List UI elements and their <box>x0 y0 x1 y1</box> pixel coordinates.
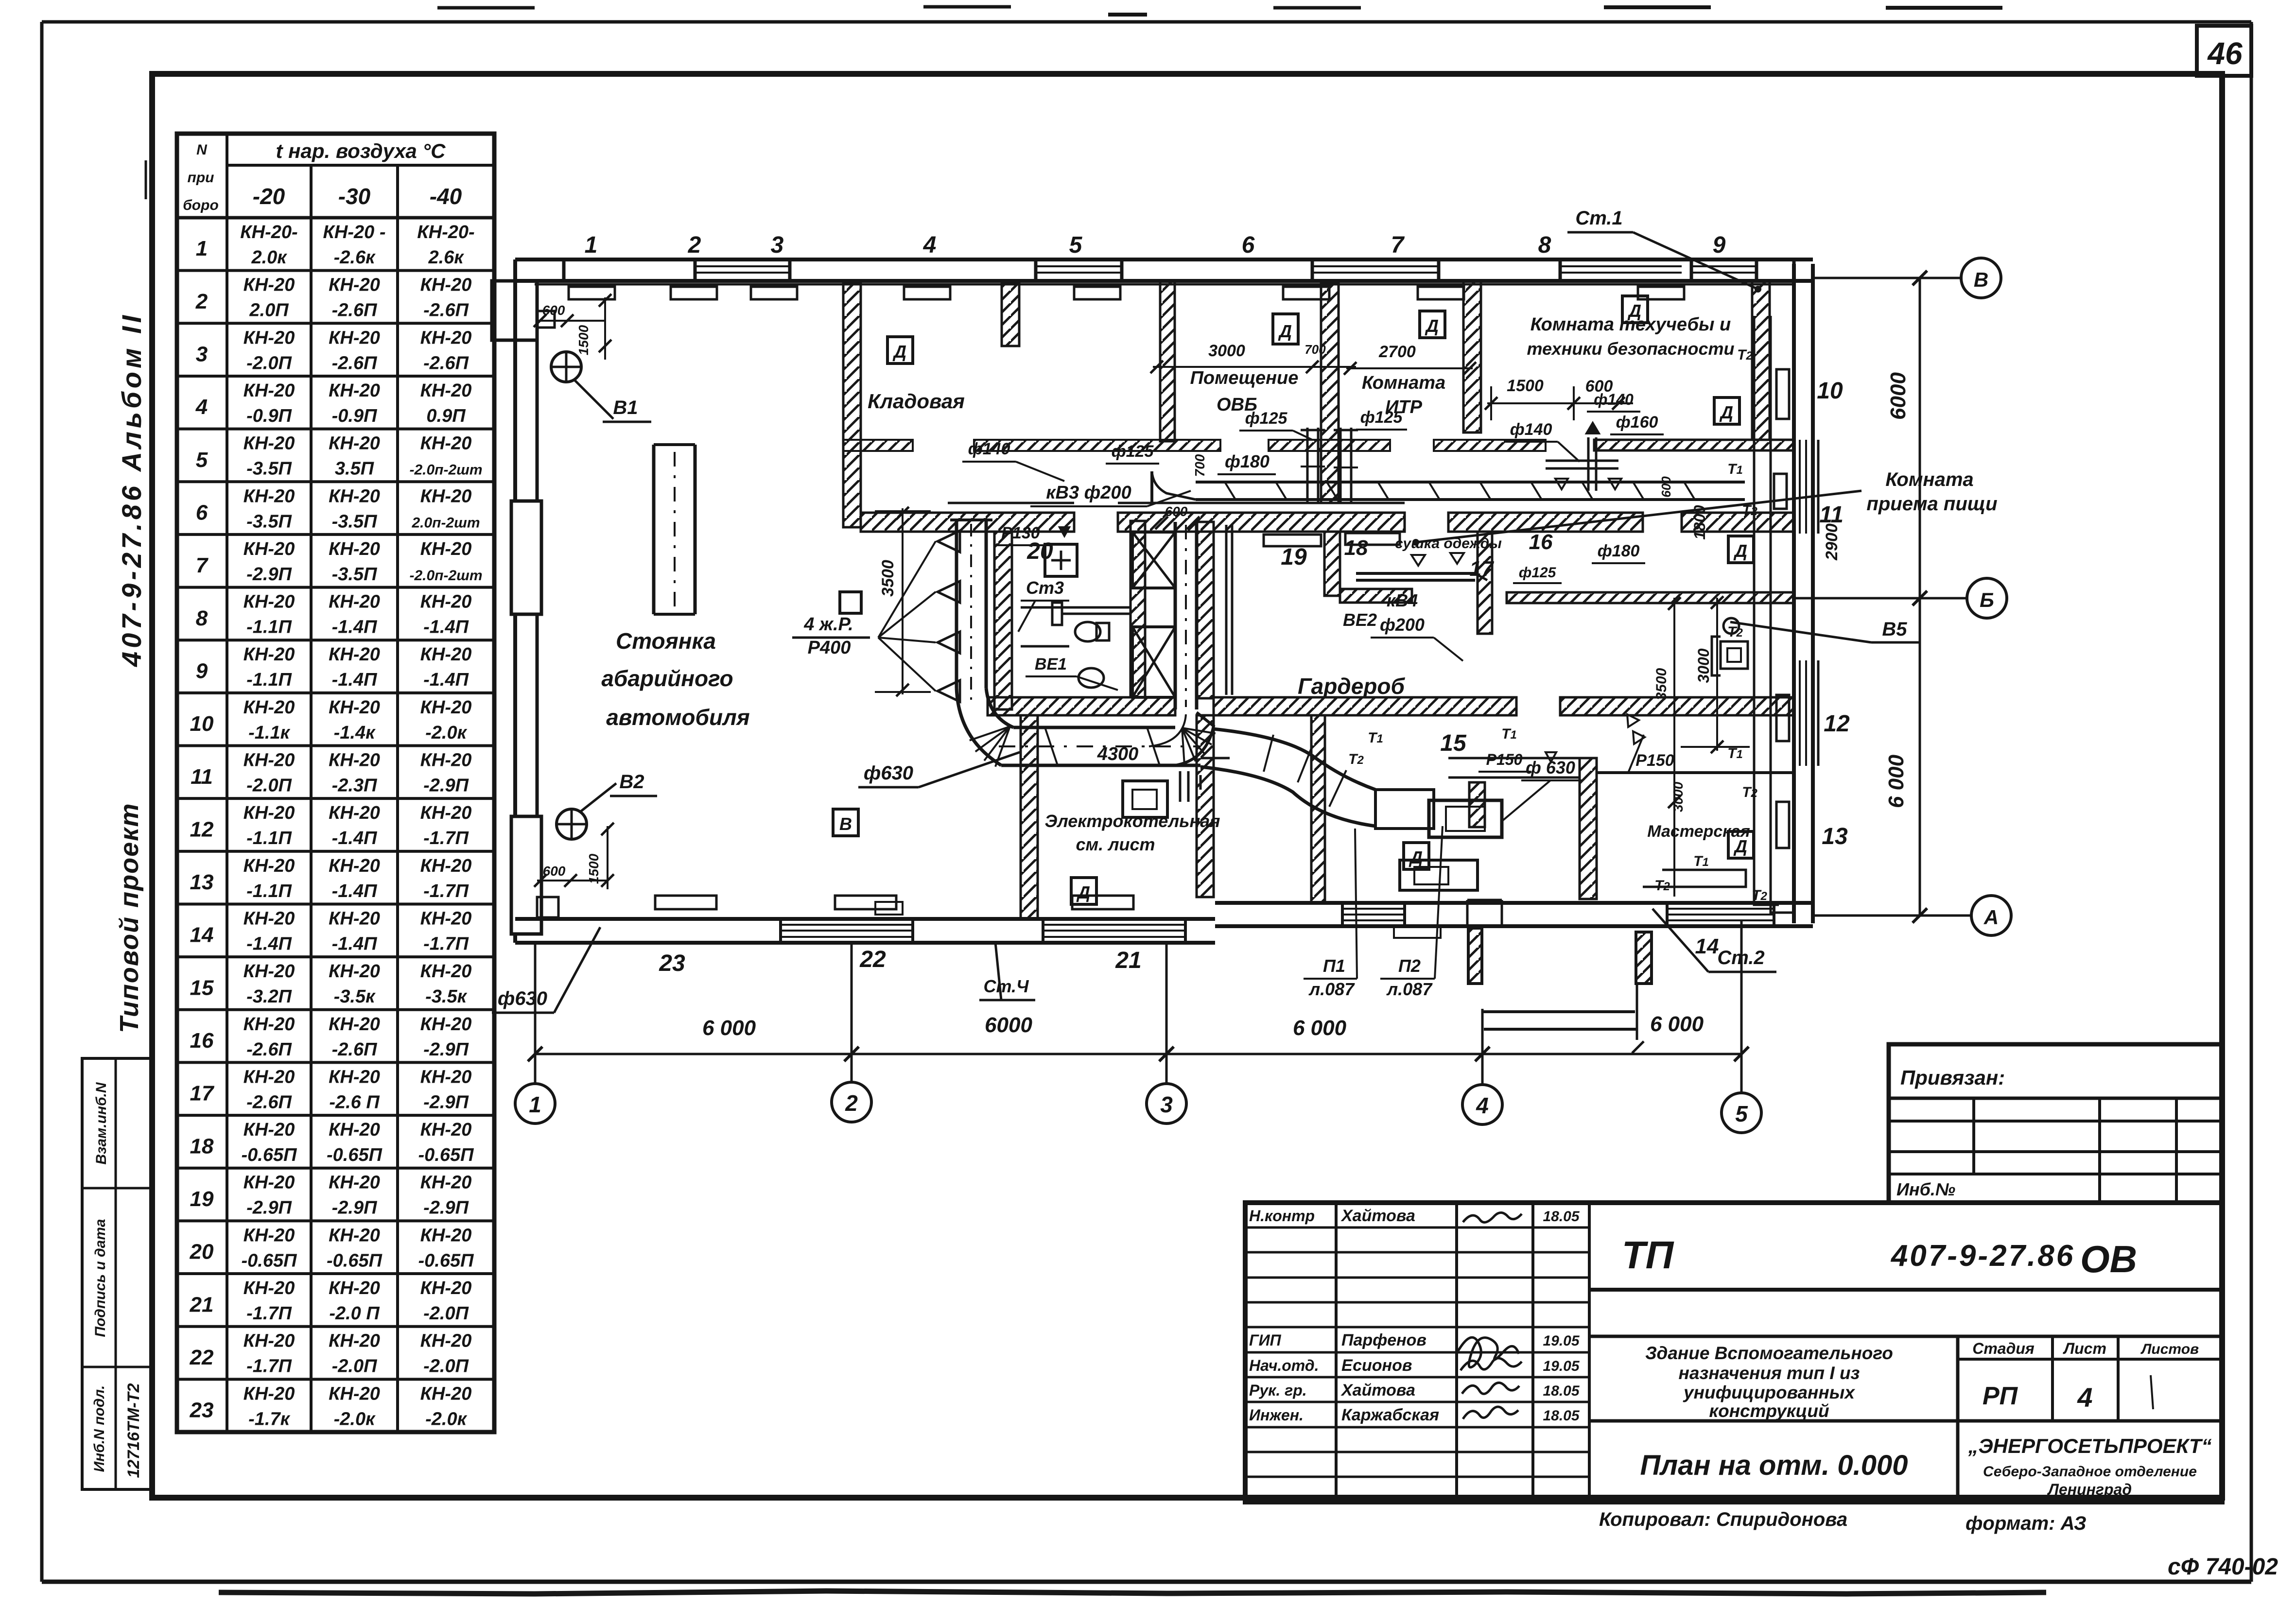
svg-text:11: 11 <box>191 765 213 789</box>
svg-text:КН-20: КН-20 <box>244 486 295 506</box>
svg-text:-2.0п-2шт: -2.0п-2шт <box>409 568 482 584</box>
svg-text:600: 600 <box>542 303 565 318</box>
svg-text:-0.65П: -0.65П <box>242 1145 297 1165</box>
svg-text:КН-20: КН-20 <box>420 1383 472 1404</box>
instrument/temperature data table <box>177 134 494 1432</box>
svg-text:-3.2П: -3.2П <box>246 986 292 1007</box>
svg-text:17: 17 <box>1470 557 1495 581</box>
duct label VE1 <box>1026 655 1118 690</box>
svg-text:2900: 2900 <box>1823 523 1841 561</box>
boxed letter D (tech room) <box>1622 296 1648 323</box>
dim 3500 rotated <box>1653 668 1670 700</box>
dim 3000 top <box>1150 342 1356 373</box>
svg-text:-0.65П: -0.65П <box>327 1250 383 1271</box>
svg-text:КН-20: КН-20 <box>420 1331 472 1351</box>
monorail column at stoyanka <box>654 445 695 614</box>
svg-text:-1.4П: -1.4П <box>332 617 377 638</box>
svg-text:13: 13 <box>190 870 214 894</box>
dim 600 near B2 <box>534 864 608 887</box>
svg-text:Т2: Т2 <box>1742 784 1757 800</box>
svg-text:-2.6П: -2.6П <box>423 300 469 321</box>
svg-text:-2.0П: -2.0П <box>246 776 292 796</box>
svg-text:3: 3 <box>196 343 208 366</box>
riser pipes f125 pair A <box>1301 428 1325 503</box>
svg-text:-3.5П: -3.5П <box>246 511 292 532</box>
svg-text:Помещение: Помещение <box>1190 368 1299 388</box>
svg-text:унифицированных: унифицированных <box>1683 1382 1855 1402</box>
svg-text:-1.4П: -1.4П <box>332 933 377 954</box>
svg-text:600: 600 <box>1165 504 1188 519</box>
svg-text:КН-20: КН-20 <box>329 433 380 454</box>
svg-text:ф125: ф125 <box>1360 408 1403 427</box>
svg-text:-0.9П: -0.9П <box>246 406 292 426</box>
svg-text:Комната: Комната <box>1885 469 1973 490</box>
floor drain square <box>840 592 861 613</box>
boxed letter D (room 11) <box>1728 536 1754 563</box>
position labels 15-20 <box>1026 530 1553 756</box>
svg-text:-2.0П: -2.0П <box>423 1303 469 1324</box>
svg-text:КН-20: КН-20 <box>329 856 380 876</box>
svg-text:-2.6 П: -2.6 П <box>329 1092 380 1112</box>
svg-text:0.9П: 0.9П <box>426 406 466 426</box>
duct label f180 right <box>1592 542 1645 563</box>
svg-text:-1.7П: -1.7П <box>423 881 469 901</box>
svg-text:22: 22 <box>190 1346 214 1369</box>
title block frame <box>1245 1203 2222 1502</box>
svg-text:КН-20: КН-20 <box>329 803 380 823</box>
svg-text:-2.6П: -2.6П <box>246 1039 292 1060</box>
axis B circle and leader <box>1794 578 2007 618</box>
svg-text:КН-20: КН-20 <box>244 1120 295 1140</box>
svg-text:2.0П: 2.0П <box>249 300 289 321</box>
svg-text:-1.7П: -1.7П <box>423 933 469 954</box>
svg-text:КН-20: КН-20 <box>329 1067 380 1087</box>
room label: Komnata ITR <box>1362 373 1445 417</box>
dims 1500 600 tech room <box>1485 377 1633 420</box>
dim 600 at duct <box>1155 504 1200 529</box>
svg-text:-2.9П: -2.9П <box>423 776 469 796</box>
partition room18/17 <box>1478 532 1492 634</box>
svg-text:1: 1 <box>585 232 598 258</box>
axis 4 circle <box>1462 1009 1502 1124</box>
svg-text:КН-20: КН-20 <box>244 697 295 718</box>
svg-text:1500: 1500 <box>586 853 601 884</box>
svg-text:КН-20: КН-20 <box>420 486 472 506</box>
svg-text:В: В <box>1974 268 1988 291</box>
svg-text:Себеро-Западное отделение: Себеро-Западное отделение <box>1983 1464 2197 1480</box>
svg-text:6: 6 <box>1242 232 1255 258</box>
boxed letter D (room 10) <box>1714 397 1739 424</box>
svg-text:Н.контр: Н.контр <box>1249 1207 1315 1225</box>
svg-text:Р400: Р400 <box>808 638 851 658</box>
svg-text:КН-20: КН-20 <box>420 380 472 401</box>
svg-text:см. лист: см. лист <box>1076 834 1155 854</box>
svg-text:3000: 3000 <box>1208 342 1245 360</box>
svg-text:при: при <box>188 170 214 186</box>
boxed letter D (OVB1) <box>1273 314 1298 344</box>
svg-text:Взам.инб.N: Взам.инб.N <box>93 1082 109 1165</box>
label T1 f630 right <box>1501 726 1582 821</box>
boxed letter D (room 13) <box>1728 831 1754 858</box>
room label: Pomeshchenie OVB 1 <box>1190 368 1299 415</box>
svg-text:ТП: ТП <box>1622 1233 1674 1277</box>
svg-text:КН-20-: КН-20- <box>240 222 297 242</box>
archive mark <box>2168 1554 2278 1580</box>
svg-text:4300: 4300 <box>1097 744 1139 764</box>
svg-text:Нач.отд.: Нач.отд. <box>1249 1357 1319 1374</box>
duct label VE2 f200 <box>1343 610 1377 630</box>
svg-text:4: 4 <box>195 395 208 419</box>
svg-text:2700: 2700 <box>1378 343 1416 361</box>
ventilation unit P2 <box>1400 860 1478 890</box>
svg-text:КН-20: КН-20 <box>244 1383 295 1404</box>
svg-text:В5: В5 <box>1882 619 1907 640</box>
svg-text:5: 5 <box>196 448 208 472</box>
stage/sheet header <box>1958 1336 2222 1502</box>
svg-text:Типовой проект: Типовой проект <box>115 802 144 1033</box>
svg-text:-2.9П: -2.9П <box>246 564 292 585</box>
svg-text:2.0п-2шт: 2.0п-2шт <box>411 515 480 531</box>
svg-text:1800: 1800 <box>1691 505 1708 539</box>
partition wall OVB2/ITR <box>1463 281 1481 432</box>
svg-text:Д: Д <box>1425 316 1439 336</box>
svg-text:600: 600 <box>1585 377 1613 396</box>
axis 1 circle <box>515 943 555 1123</box>
svg-text:-1.1П: -1.1П <box>246 828 292 848</box>
svg-text:конструкций: конструкций <box>1709 1401 1829 1421</box>
svg-text:18.05: 18.05 <box>1543 1383 1580 1399</box>
svg-text:Стоянка: Стоянка <box>616 628 716 654</box>
svg-text:2: 2 <box>688 232 701 258</box>
svg-text:Хайтова: Хайтова <box>1340 1207 1415 1225</box>
svg-text:В2: В2 <box>619 771 644 793</box>
riser pipes T1 T2 along right wall <box>1754 316 1794 913</box>
axis 5 circle <box>1722 921 1761 1133</box>
radiators in rooms 19 18 <box>1264 533 1400 546</box>
main duct d630 horizontal <box>999 727 1200 765</box>
title block sheet name <box>1589 1421 2222 1481</box>
svg-text:19.05: 19.05 <box>1543 1358 1580 1374</box>
svg-text:-1.7к: -1.7к <box>248 1409 290 1429</box>
scan top edge dashes <box>437 7 2002 15</box>
stack label St1 <box>1567 207 1761 293</box>
svg-text:12: 12 <box>190 817 214 841</box>
svg-text:-1.4П: -1.4П <box>332 828 377 848</box>
room label: dining room (outside, with leader) <box>1412 469 1998 546</box>
bottom torn paper edge <box>219 1591 2046 1594</box>
svg-text:КН-20: КН-20 <box>329 1278 380 1298</box>
svg-text:Каржабская: Каржабская <box>1341 1406 1439 1424</box>
S-duct and silencer bottom centre <box>1200 729 1502 837</box>
dim 4300 under duct <box>1097 744 1139 764</box>
svg-text:7: 7 <box>196 553 209 577</box>
svg-text:ГИП: ГИП <box>1249 1331 1282 1349</box>
svg-text:3: 3 <box>771 232 784 258</box>
room label: Kladovaya <box>868 390 965 413</box>
duct label f180 <box>1218 451 1276 474</box>
duct label f160 <box>1610 413 1664 434</box>
svg-text:ф140: ф140 <box>968 440 1010 458</box>
duct label f140 top <box>962 440 1064 481</box>
svg-text:КН-20: КН-20 <box>244 380 295 401</box>
svg-text:6: 6 <box>196 501 208 524</box>
svg-text:КН-20: КН-20 <box>329 1014 380 1035</box>
svg-text:Хайтова: Хайтова <box>1340 1381 1415 1400</box>
svg-text:6 000: 6 000 <box>702 1016 756 1040</box>
svg-text:Ленинград: Ленинград <box>2047 1481 2132 1498</box>
svg-text:КН-20: КН-20 <box>420 1173 472 1193</box>
axis position labels 1-9 along top <box>585 232 1726 258</box>
dim 600 at entrance <box>542 303 565 318</box>
vent mark B1 <box>551 352 651 422</box>
storage X-brace 1 <box>1132 532 1175 588</box>
svg-text:2.0к: 2.0к <box>251 247 287 268</box>
wall radiator strips right side <box>1774 369 1789 848</box>
svg-text:-2.6П: -2.6П <box>332 300 377 321</box>
svg-text:-1.1П: -1.1П <box>246 881 292 901</box>
corridor top wall <box>861 503 1794 532</box>
svg-text:15: 15 <box>190 976 214 1000</box>
rotated document number 407-9-27.86 Album II <box>116 160 147 667</box>
svg-text:14: 14 <box>1695 934 1719 958</box>
duct label f125 a <box>1106 442 1159 464</box>
svg-text:700: 700 <box>1305 342 1326 357</box>
svg-text:КН-20: КН-20 <box>329 539 380 559</box>
svg-text:-3.5П: -3.5П <box>246 459 292 479</box>
dim 700 small <box>1305 342 1326 357</box>
svg-text:3500: 3500 <box>1653 668 1670 700</box>
svg-text:7: 7 <box>1391 232 1405 258</box>
wall between room 10 and dining room <box>1594 440 1794 450</box>
svg-text:10: 10 <box>190 712 214 736</box>
svg-text:формат: АЗ: формат: АЗ <box>1966 1513 2087 1534</box>
svg-text:КН-20: КН-20 <box>244 1014 295 1035</box>
svg-text:КН-20: КН-20 <box>329 644 380 665</box>
svg-text:-2.9П: -2.9П <box>423 1198 469 1218</box>
svg-text:8: 8 <box>196 606 208 630</box>
svg-text:Т1: Т1 <box>1727 461 1743 477</box>
stack label St2 <box>1652 909 1776 972</box>
svg-text:Есионов: Есионов <box>1341 1356 1412 1375</box>
svg-text:13: 13 <box>1822 824 1848 849</box>
svg-text:КН-20: КН-20 <box>420 1067 472 1087</box>
svg-text:-3.5к: -3.5к <box>334 986 376 1007</box>
svg-text:-2.9П: -2.9П <box>246 1198 292 1218</box>
svg-text:КН-20-: КН-20- <box>417 222 474 242</box>
svg-text:19.05: 19.05 <box>1543 1333 1580 1349</box>
storage X-brace 2 <box>1132 627 1175 697</box>
svg-text:Д: Д <box>1409 847 1423 867</box>
svg-text:Т1: Т1 <box>1501 726 1517 742</box>
svg-text:Д: Д <box>1627 301 1641 321</box>
svg-text:Листов: Листов <box>2140 1341 2199 1357</box>
svg-text:Т1: Т1 <box>1368 730 1383 746</box>
svg-text:-20: -20 <box>253 184 285 209</box>
room label: tech study room <box>1527 314 1734 359</box>
svg-text:РП: РП <box>1983 1382 2018 1410</box>
svg-text:19: 19 <box>1281 544 1307 570</box>
svg-text:6 000: 6 000 <box>1293 1016 1347 1040</box>
svg-text:10: 10 <box>1817 378 1843 404</box>
svg-text:8: 8 <box>1538 232 1551 258</box>
svg-text:2: 2 <box>195 290 208 313</box>
grille triangles 4 zh.r. <box>938 531 960 702</box>
svg-text:15: 15 <box>1440 730 1467 756</box>
svg-text:4: 4 <box>1476 1093 1489 1118</box>
svg-text:КН-20: КН-20 <box>420 908 472 929</box>
duct label f125 right <box>1513 565 1562 583</box>
svg-text:КН-20: КН-20 <box>420 644 472 665</box>
workshop walls <box>1580 758 1794 899</box>
svg-text:КН-20: КН-20 <box>244 539 295 559</box>
svg-text:КН-20: КН-20 <box>329 486 380 506</box>
svg-text:18: 18 <box>190 1134 214 1158</box>
svg-text:Т2: Т2 <box>1348 751 1364 767</box>
boxed letter D (ITR) <box>1420 311 1445 338</box>
svg-text:700: 700 <box>1192 454 1207 477</box>
svg-text:Комната: Комната <box>1362 373 1445 393</box>
svg-text:кВ4: кВ4 <box>1387 590 1418 610</box>
svg-text:-2.9П: -2.9П <box>332 1198 377 1218</box>
svg-text:Р130: Р130 <box>1001 524 1040 542</box>
svg-text:КН-20: КН-20 <box>244 592 295 612</box>
top-left entrance step <box>492 281 605 340</box>
svg-text:17: 17 <box>190 1082 215 1106</box>
svg-text:КН-20: КН-20 <box>420 750 472 771</box>
svg-text:21: 21 <box>190 1293 214 1316</box>
svg-text:ВЕ2: ВЕ2 <box>1343 610 1377 630</box>
svg-text:Д: Д <box>1719 402 1733 422</box>
drying rod in drying room <box>1356 573 1487 580</box>
svg-text:КН-20: КН-20 <box>244 275 295 295</box>
svg-text:КН-20: КН-20 <box>244 961 295 982</box>
svg-text:-3.5П: -3.5П <box>332 564 377 585</box>
svg-text:КН-20: КН-20 <box>329 961 380 982</box>
signature squiggles <box>1458 1212 1522 1419</box>
svg-text:Ст3: Ст3 <box>1026 578 1064 598</box>
svg-text:Д: Д <box>892 342 906 362</box>
svg-text:2: 2 <box>845 1090 858 1116</box>
corridor upper wall <box>843 440 1546 451</box>
svg-text:КН-20: КН-20 <box>244 1173 295 1193</box>
svg-text:КН-20: КН-20 <box>329 908 380 929</box>
axis 2 circle <box>832 943 871 1122</box>
dim 3500 line <box>1668 597 1681 897</box>
supply shaft duct A2 <box>950 520 992 700</box>
svg-text:приема пищи: приема пищи <box>1866 493 1997 515</box>
axis A circle and leader <box>1813 896 2011 935</box>
svg-text:Ст.Ч: Ст.Ч <box>983 976 1029 996</box>
svg-text:-2.0к: -2.0к <box>425 723 467 743</box>
room label: Stoyanka <box>601 628 749 730</box>
svg-text:КН-20: КН-20 <box>244 803 295 823</box>
title block subject <box>1589 1336 2222 1421</box>
svg-text:КН-20: КН-20 <box>329 1383 380 1404</box>
svg-text:Инб.N подл.: Инб.N подл. <box>91 1385 107 1472</box>
inner drawing frame <box>152 74 2222 1498</box>
svg-text:-1.4к: -1.4к <box>334 723 376 743</box>
svg-text:-30: -30 <box>338 184 371 209</box>
svg-text:КН-20: КН-20 <box>329 1225 380 1245</box>
room label: drying room <box>1395 536 1502 552</box>
svg-text:Т2: Т2 <box>1654 878 1670 894</box>
svg-text:18.05: 18.05 <box>1543 1408 1580 1424</box>
svg-text:1: 1 <box>529 1092 541 1117</box>
svg-text:абарийного: абарийного <box>601 666 733 691</box>
svg-text:автомобиля: автомобиля <box>606 705 750 730</box>
kotelnaya right wall <box>1197 715 1214 897</box>
svg-text:ф630: ф630 <box>498 988 547 1009</box>
svg-text:ф160: ф160 <box>1616 413 1658 432</box>
riser pipes f125 pair B <box>1334 428 1358 503</box>
svg-text:-2.0к: -2.0к <box>334 1409 376 1429</box>
svg-text:-1.1к: -1.1к <box>248 723 290 743</box>
svg-text:1500: 1500 <box>1507 377 1544 395</box>
partition wall OVB1/OVB2 <box>1321 284 1339 503</box>
svg-text:-0.65П: -0.65П <box>418 1250 474 1271</box>
rotated label: Типовой проект <box>115 802 144 1033</box>
svg-text:-3.5к: -3.5к <box>425 986 467 1007</box>
svg-text:6000: 6000 <box>985 1013 1032 1037</box>
duct elbow left with fan hatch <box>957 688 1013 767</box>
duct label kV4 f200 <box>1371 590 1463 661</box>
svg-text:Здание Вспомогательного: Здание Вспомогательного <box>1645 1343 1893 1363</box>
svg-text:л.087: л.087 <box>1308 979 1355 999</box>
dim 1500 at entrance <box>576 294 611 360</box>
svg-text:5: 5 <box>1069 232 1083 258</box>
svg-text:Кладовая: Кладовая <box>868 390 965 413</box>
svg-text:КН-20: КН-20 <box>420 1014 472 1035</box>
svg-text:600: 600 <box>1659 476 1673 498</box>
svg-text:12716ТМ-Т2: 12716ТМ-Т2 <box>124 1383 143 1478</box>
svg-text:Т2: Т2 <box>1742 502 1757 518</box>
svg-text:2.6к: 2.6к <box>428 247 464 268</box>
svg-text:-1.4П: -1.4П <box>423 617 469 638</box>
hatched wall beside duct <box>1197 522 1214 698</box>
labels T1 T2 risers <box>1727 347 1757 800</box>
label R150 small <box>1478 751 1556 772</box>
labels T1 T2 near stairs <box>1348 730 1383 767</box>
svg-text:ф125: ф125 <box>1245 409 1288 428</box>
room label: Elektrokotelnaya <box>1044 811 1220 854</box>
svg-text:КН-20: КН-20 <box>420 328 472 348</box>
room label: Garderob <box>1298 674 1406 699</box>
svg-text:1: 1 <box>196 237 208 260</box>
svg-text:Привязан:: Привязан: <box>1900 1066 2005 1089</box>
svg-text:П2: П2 <box>1398 956 1421 976</box>
title block signature table <box>1245 1203 1589 1502</box>
svg-text:КН-20: КН-20 <box>244 1278 295 1298</box>
svg-text:4: 4 <box>2077 1382 2092 1413</box>
svg-text:6000: 6000 <box>1886 372 1910 420</box>
vent fixture near B5 <box>1712 618 1748 675</box>
duct label f125 c <box>1239 409 1312 440</box>
svg-text:3500: 3500 <box>879 560 897 597</box>
svg-text:сФ 740-02: сФ 740-02 <box>2168 1554 2278 1580</box>
svg-text:П1: П1 <box>1323 956 1345 976</box>
svg-text:КН-20: КН-20 <box>329 592 380 612</box>
svg-text:КН-20: КН-20 <box>244 1225 295 1245</box>
svg-text:19: 19 <box>190 1187 214 1211</box>
svg-text:9: 9 <box>196 659 208 683</box>
svg-text:КН-20: КН-20 <box>329 697 380 718</box>
svg-text:боро: боро <box>183 197 219 213</box>
svg-text:В: В <box>839 814 852 834</box>
right vertical dimension line 6000+6000 <box>1884 278 1920 916</box>
wall stub near stairs <box>1469 782 1485 827</box>
svg-text:Д: Д <box>1076 882 1090 902</box>
svg-text:КН-20: КН-20 <box>420 1278 472 1298</box>
